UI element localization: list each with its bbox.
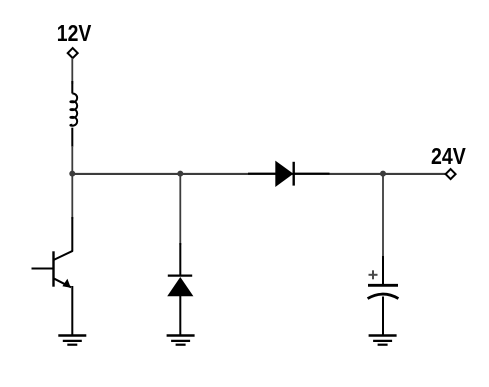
terminal 24V <box>446 169 456 179</box>
svg-text:24V: 24V <box>431 143 466 169</box>
ground (diode D1) <box>167 336 195 345</box>
node A <box>69 171 75 177</box>
inductor L1 <box>70 81 77 147</box>
transistor Q1 <box>32 217 73 336</box>
wire inductor to node A <box>71 146 73 174</box>
wire node B to diode D1 <box>179 174 181 245</box>
ground (capacitor) <box>369 336 397 345</box>
capacitor C1 plus sign <box>369 270 378 279</box>
wire node C to capacitor C1 <box>382 174 384 258</box>
wire node A to transistor collector <box>71 174 73 219</box>
node B <box>177 171 183 177</box>
wire main horizontal rail <box>72 173 445 175</box>
ground (emitter) <box>58 336 86 345</box>
svg-text:12V: 12V <box>57 20 92 46</box>
diode D1 (shunt, pointing up) <box>168 243 192 336</box>
wire from 12V terminal to inductor <box>71 58 73 84</box>
node C <box>380 171 386 177</box>
terminal 12V <box>68 48 78 58</box>
capacitor C1 <box>368 256 399 336</box>
diode D2 (series, pointing right) <box>248 162 330 186</box>
